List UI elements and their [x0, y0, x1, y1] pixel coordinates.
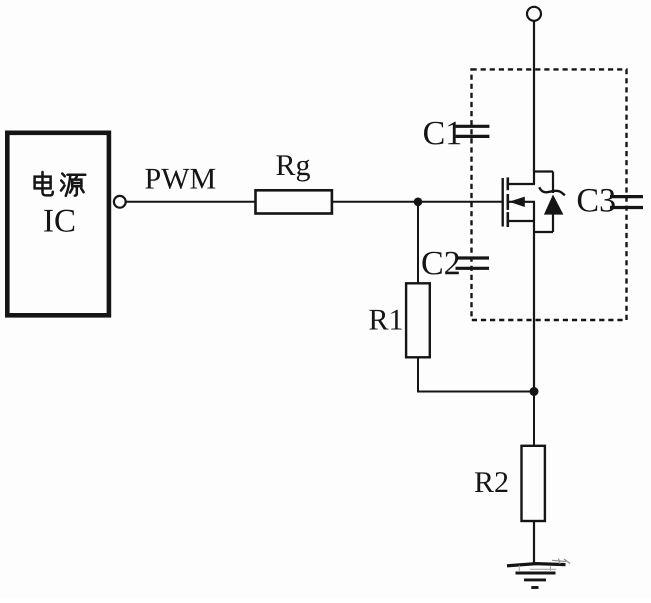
- diode branch top wire: [552, 172, 554, 194]
- MOSFET Q1 gate bar: [502, 178, 504, 227]
- resistor R2: [522, 446, 545, 521]
- label 电: [35, 172, 53, 195]
- source wire (body/source down to node): [533, 202, 535, 392]
- junction node: [414, 198, 423, 207]
- diode branch bottom wire: [552, 215, 554, 233]
- source node dot: [530, 387, 539, 396]
- pin circle (IC output): [114, 196, 126, 208]
- capacitor C2: [456, 258, 490, 268]
- dashed box (MOSFET parasitic boundary): [472, 69, 627, 320]
- capacitor C3: [610, 197, 643, 208]
- label PWM: [145, 169, 215, 189]
- label IC: [44, 210, 74, 232]
- wire R1 to source node: [418, 357, 534, 391]
- resistor R1: [406, 283, 430, 357]
- label C1: [424, 122, 460, 145]
- wire Rg to gate: [332, 201, 502, 203]
- label R2: [475, 472, 507, 492]
- label C3: [578, 189, 615, 212]
- label Rg: [276, 155, 310, 181]
- wire R2 to ground: [533, 521, 535, 564]
- label R1: [369, 310, 401, 330]
- body diode cathode bar (curved): [539, 187, 565, 195]
- MOSFET drain stub: [509, 183, 536, 185]
- MOSFET body arrow: [509, 197, 525, 207]
- wire drain T to diode branch: [534, 170, 553, 172]
- wire pin to Rg: [126, 201, 255, 203]
- MOSFET channel segments: [506, 177, 509, 227]
- resistor Rg: [256, 190, 332, 213]
- top terminal circle: [527, 7, 541, 21]
- drain wire (terminal to MOSFET drain): [533, 21, 535, 184]
- capacitor C1: [456, 126, 490, 136]
- IC box U1: [7, 133, 109, 315]
- body diode D1 triangle: [544, 195, 564, 215]
- label C2: [422, 252, 458, 275]
- MOSFET body stub: [509, 201, 535, 203]
- wire node to R2: [533, 392, 535, 447]
- wire diode bottom to source: [534, 231, 553, 233]
- label 源: [61, 174, 85, 196]
- ground: [507, 559, 570, 588]
- wire junction to R1: [417, 202, 419, 284]
- MOSFET source stub: [509, 220, 536, 222]
